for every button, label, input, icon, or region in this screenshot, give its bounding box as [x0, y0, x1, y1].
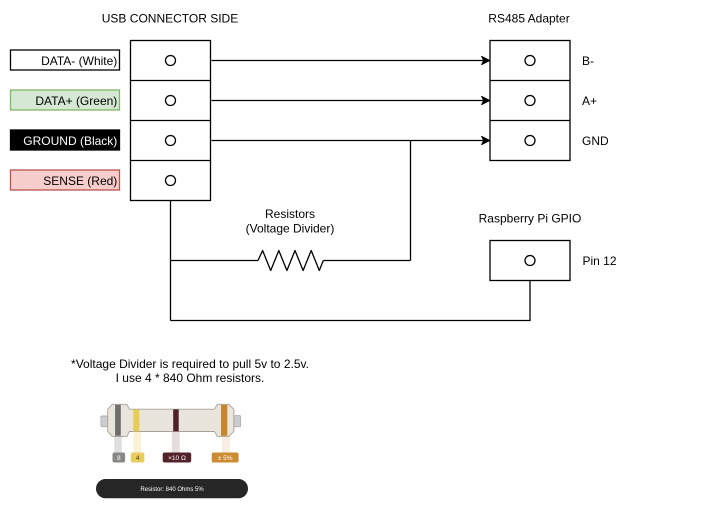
arrowhead at A+: [482, 96, 490, 104]
wire connector bottom down: [170, 201, 172, 321]
USB connector body J1: [131, 41, 211, 201]
svg-text:A+: A+: [582, 94, 597, 108]
svg-text:4: 4: [136, 455, 140, 462]
svg-text:Resistor: 840 Ohms 5%: Resistor: 840 Ohms 5%: [140, 487, 204, 493]
arrowhead at B-: [482, 56, 490, 64]
wire left to resistor: [171, 260, 259, 262]
stream yellow: [133, 432, 141, 453]
band 4 orange (5%): [221, 405, 227, 436]
svg-text:DATA+ (Green): DATA+ (Green): [35, 94, 117, 108]
GPIO box: [490, 241, 570, 281]
tag x10 ohm: [163, 453, 192, 463]
label box SENSE (Red): [11, 170, 120, 190]
svg-text:(Voltage Divider): (Voltage Divider): [246, 221, 335, 235]
label box DATA+ (Green): [11, 90, 120, 110]
svg-text:DATA- (White): DATA- (White): [41, 54, 117, 68]
svg-text:USB CONNECTOR SIDE: USB CONNECTOR SIDE: [102, 12, 238, 26]
svg-text:*Voltage Divider is required t: *Voltage Divider is required to pull 5v …: [71, 357, 309, 371]
tag 4: [131, 453, 145, 463]
band 1 gray (8): [115, 405, 121, 436]
RS485 pin circle B-: [525, 56, 535, 66]
USB pin 2 circle (DATA+): [166, 96, 176, 106]
wire GND branch down to resistor: [410, 141, 412, 261]
svg-text:×10 Ω: ×10 Ω: [168, 455, 186, 462]
RS485 pin circle GND: [525, 136, 535, 146]
stream orange: [222, 436, 230, 452]
svg-text:SENSE (Red): SENSE (Red): [43, 174, 117, 188]
resistor photo graphic: [101, 404, 241, 462]
svg-text:Pin 12: Pin 12: [583, 254, 617, 268]
label box GROUND (Black): [11, 130, 120, 150]
tag 8: [113, 453, 126, 463]
USB pin 1 circle (DATA-): [166, 56, 176, 66]
svg-text:GROUND (Black): GROUND (Black): [23, 134, 117, 148]
wire bottom run to GPIO: [171, 281, 531, 321]
band 2 yellow (4): [133, 409, 139, 431]
wire DATA- to B-: [212, 60, 484, 62]
wire GROUND to GND: [212, 140, 484, 142]
svg-text:± 5%: ± 5%: [218, 455, 233, 462]
wire DATA+ to A+: [212, 100, 484, 102]
USB pin 4 circle (SENSE): [166, 176, 176, 186]
USB pin 3 circle (GROUND): [166, 136, 176, 146]
RS485 pin circle A+: [525, 96, 535, 106]
tag 5%: [212, 453, 239, 463]
right lead: [234, 416, 241, 427]
svg-text:B-: B-: [582, 54, 594, 68]
band 3 maroon (x10): [173, 409, 179, 431]
resistor R1 zigzag: [258, 251, 323, 271]
resistor body: [108, 404, 234, 436]
svg-text:8: 8: [117, 455, 121, 462]
svg-text:RS485 Adapter: RS485 Adapter: [488, 12, 569, 26]
svg-text:GND: GND: [582, 134, 609, 148]
label box DATA- (White): [11, 50, 120, 70]
result pill Resistor: 840 Ohms 5%: [96, 479, 248, 498]
svg-text:I use 4 * 840 Ohm resistors.: I use 4 * 840 Ohm resistors.: [116, 371, 265, 385]
stream maroon: [172, 432, 180, 453]
GPIO pin circle: [525, 256, 535, 266]
svg-text:Raspberry Pi GPIO: Raspberry Pi GPIO: [479, 212, 582, 226]
wire resistor to GND branch: [323, 260, 410, 262]
stream gray: [114, 436, 122, 452]
arrowhead at GND: [482, 136, 490, 144]
svg-text:Resistors: Resistors: [265, 207, 315, 221]
left lead: [101, 416, 108, 427]
RS485 adapter body U1: [490, 41, 570, 161]
